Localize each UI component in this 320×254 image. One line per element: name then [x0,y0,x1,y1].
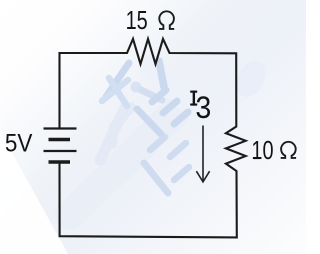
svg-text:15: 15 [126,5,148,34]
svg-text:3: 3 [195,93,212,129]
svg-text:10: 10 [251,136,273,165]
svg-text:5V: 5V [5,130,33,158]
